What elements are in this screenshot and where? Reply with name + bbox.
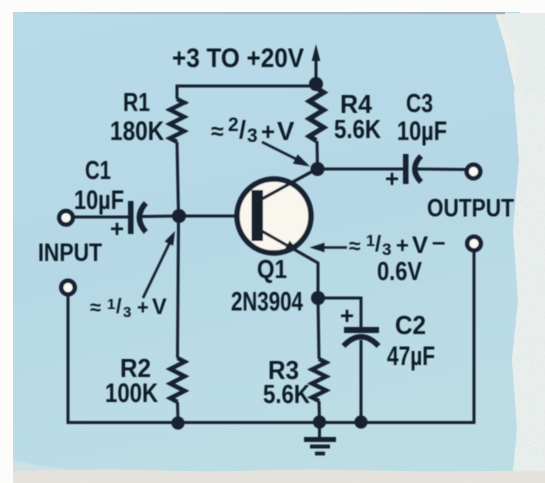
svg-text:V: V	[152, 294, 167, 319]
label ~1/3 +V (base)	[90, 294, 167, 321]
wire: C3 to output terminal	[417, 168, 466, 172]
output terminal (ground)	[467, 237, 481, 251]
svg-text:≈: ≈	[211, 118, 224, 144]
node: emitter junction	[311, 291, 325, 305]
svg-text:+: +	[110, 216, 124, 243]
wire: emitter node to C2	[318, 298, 361, 328]
svg-text:/: /	[375, 231, 381, 256]
svg-text:C3: C3	[406, 88, 433, 118]
svg-text:10µF: 10µF	[397, 116, 447, 146]
input terminal (signal)	[59, 211, 73, 225]
capacitor C1	[110, 201, 146, 243]
node: supply junction	[309, 77, 323, 91]
svg-text:+: +	[340, 303, 354, 330]
node: R2 rail junction	[171, 416, 184, 429]
transistor Q1	[237, 169, 318, 264]
svg-text:3: 3	[123, 304, 131, 321]
svg-text:R1: R1	[123, 87, 150, 117]
svg-text:INPUT: INPUT	[38, 239, 102, 267]
wire: emitter to emitter node	[317, 262, 320, 298]
wire: R4 bottom to collector node	[316, 141, 320, 169]
svg-text:C1: C1	[85, 155, 111, 185]
capacitor C2	[340, 303, 379, 346]
wire: top supply rail	[177, 86, 316, 99]
svg-text:/: /	[239, 116, 246, 144]
node: base junction	[172, 209, 186, 223]
capacitor C3	[385, 154, 421, 193]
wire: input terminal to C1	[73, 216, 128, 219]
output terminal (signal)	[467, 165, 481, 179]
wire: base node to transistor	[179, 215, 253, 218]
wire: R3 to rail	[318, 401, 322, 423]
resistor R3	[312, 359, 326, 401]
svg-text:OUTPUT: OUTPUT	[427, 195, 514, 223]
arrow from 2/3 label to collector node	[262, 142, 299, 161]
svg-text:2: 2	[228, 115, 239, 136]
svg-text:≈: ≈	[349, 235, 361, 258]
bottom-left torn streak	[13, 460, 76, 471]
svg-text:100K: 100K	[105, 378, 158, 408]
svg-text:2N3904: 2N3904	[231, 287, 303, 317]
wire: R2 from base node down	[178, 216, 179, 358]
svg-text:5.6K: 5.6K	[263, 379, 310, 409]
arrow from 1/3-0.6 label to emitter	[310, 243, 325, 252]
supply arrow up	[315, 56, 318, 86]
node: collector junction	[311, 162, 325, 176]
svg-text:V: V	[277, 116, 295, 146]
wire: emitter node to R3	[318, 298, 319, 359]
top white margin	[0, 0, 545, 12]
page edge gray line top	[24, 12, 505, 14]
left white margin	[0, 0, 13, 483]
svg-text:1: 1	[366, 233, 375, 250]
svg-text:V: V	[412, 232, 428, 259]
node: C2 rail junction	[354, 415, 367, 428]
svg-text:+3 TO +20V: +3 TO +20V	[172, 43, 304, 73]
svg-text:+: +	[396, 233, 409, 258]
svg-text:+: +	[137, 297, 149, 319]
svg-text:0.6V: 0.6V	[377, 256, 423, 286]
scan speck	[184, 101, 189, 104]
resistor R2	[170, 358, 184, 402]
svg-text:10µF: 10µF	[74, 185, 124, 215]
svg-text:C2: C2	[395, 310, 426, 340]
svg-text:–: –	[432, 229, 445, 256]
svg-text:+: +	[385, 166, 399, 193]
wire: R2 to rail	[176, 402, 180, 423]
svg-text:1: 1	[107, 296, 115, 313]
wire: C2 to bottom rail	[360, 340, 363, 423]
svg-text:/: /	[116, 296, 122, 318]
resistor R1	[170, 99, 184, 142]
node: R3 rail junction	[313, 415, 326, 428]
wire: collector node to C3	[318, 168, 405, 171]
resistor R4	[309, 88, 323, 141]
wire: input ground down to rail	[68, 251, 474, 423]
svg-text:3: 3	[247, 126, 258, 147]
wire: R1 bottom to base node	[177, 142, 179, 216]
ground symbol	[304, 422, 336, 454]
bottom torn band	[0, 468, 545, 483]
svg-text:47µF: 47µF	[387, 341, 435, 371]
label ~1/3 +V - 0.6V	[349, 229, 445, 286]
svg-text:≈: ≈	[90, 297, 101, 319]
svg-text:180K: 180K	[110, 116, 164, 146]
input terminal (ground)	[61, 281, 75, 295]
wire: C1 to base node	[142, 215, 179, 219]
svg-text:Q1: Q1	[257, 254, 287, 284]
label ~2/3 +V	[211, 115, 295, 147]
arrow from 1/3 label to base node	[143, 242, 170, 298]
svg-text:5.6K: 5.6K	[334, 114, 381, 144]
